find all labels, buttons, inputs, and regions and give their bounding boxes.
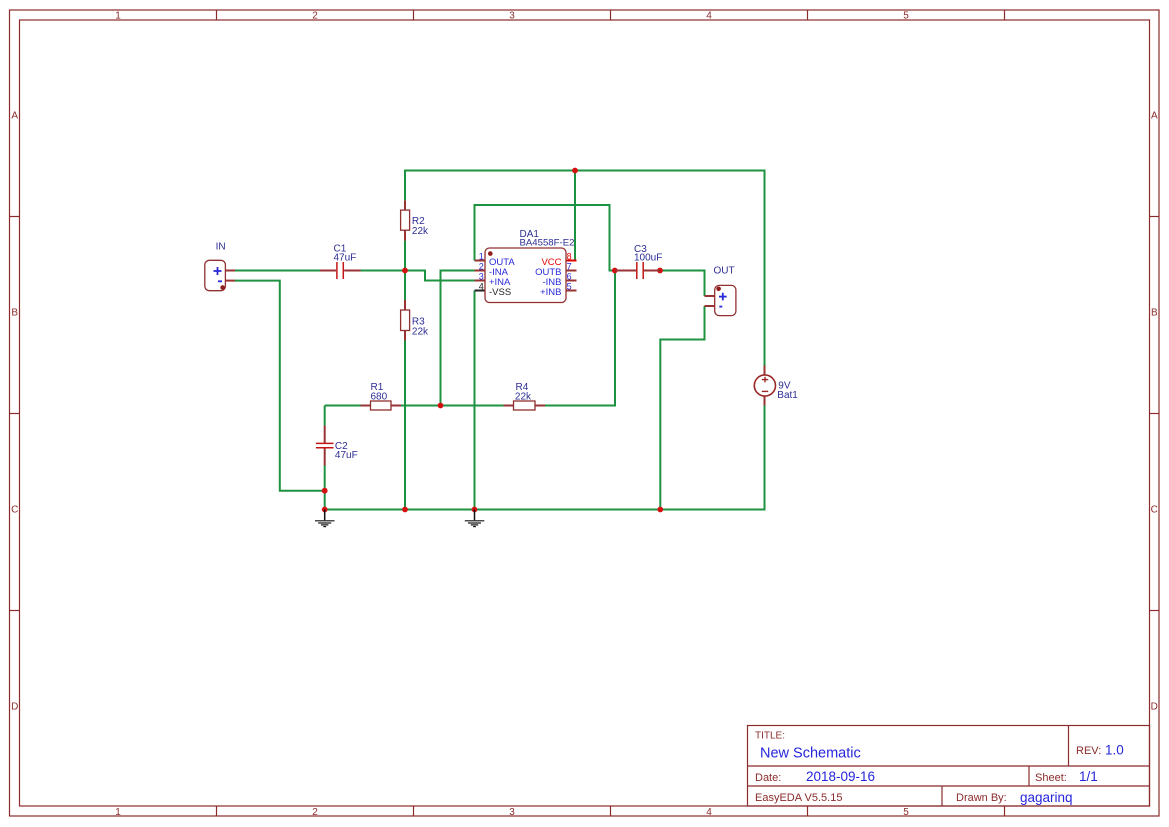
svg-text:100uF: 100uF xyxy=(634,252,662,263)
svg-text:7: 7 xyxy=(567,262,572,272)
svg-text:TITLE:: TITLE: xyxy=(755,731,785,742)
wire R3 bottom to ground rail xyxy=(404,341,406,510)
junction node VCC tap xyxy=(572,168,578,174)
wire R1 left xyxy=(325,405,361,407)
wire pin2 -INA riser xyxy=(441,271,475,406)
svg-text:2: 2 xyxy=(312,807,318,818)
svg-text:8: 8 xyxy=(567,252,572,262)
svg-text:3: 3 xyxy=(479,272,484,282)
wire ground rail and battery bottom riser xyxy=(325,406,765,510)
wire R2 to R3 link xyxy=(404,241,406,300)
svg-text:22k: 22k xyxy=(515,392,532,403)
wire R1 to R4 xyxy=(401,405,504,407)
svg-text:Bat1: Bat1 xyxy=(777,390,798,401)
junction node C1/R2/R3 xyxy=(402,268,408,274)
wire IN+ to C1 xyxy=(235,270,320,272)
junction node OUTA/C3/R4 xyxy=(612,268,618,274)
ground left xyxy=(315,510,335,527)
capacitor C3 100uF xyxy=(615,244,662,279)
svg-text:680: 680 xyxy=(371,392,388,403)
wire C2 top to R1 rail xyxy=(324,406,326,426)
wire -VSS pin4 drop xyxy=(474,291,476,510)
resistor R4 22k xyxy=(504,382,546,410)
svg-text:EasyEDA V5.5.15: EasyEDA V5.5.15 xyxy=(755,792,842,804)
op-amp U1 DA1 BA4558F-E2 xyxy=(475,229,577,303)
resistor R1 680 xyxy=(361,382,402,410)
svg-text:Sheet:: Sheet: xyxy=(1035,772,1067,784)
svg-text:2: 2 xyxy=(479,262,484,272)
svg-text:2: 2 xyxy=(312,11,318,22)
connector IN xyxy=(205,242,235,291)
junction node ground rail VSS xyxy=(472,507,478,513)
junction node ground rail R3 xyxy=(402,507,408,513)
junction node C2 bottom / IN- xyxy=(322,488,328,494)
svg-text:1: 1 xyxy=(479,252,484,262)
svg-text:C: C xyxy=(1151,505,1158,516)
wire junction jog to pin3 +INA xyxy=(405,271,475,281)
svg-text:47uF: 47uF xyxy=(334,252,357,263)
svg-text:Drawn By:: Drawn By: xyxy=(956,792,1007,804)
wire C1 to junction xyxy=(361,270,406,272)
svg-text:A: A xyxy=(1151,111,1158,122)
svg-text:gagarinq: gagarinq xyxy=(1020,790,1073,805)
svg-text:5: 5 xyxy=(903,807,909,818)
svg-text:4: 4 xyxy=(706,807,712,818)
svg-text:Date:: Date: xyxy=(755,772,781,784)
svg-text:3: 3 xyxy=(509,807,515,818)
wire C2 bottom to ground rail xyxy=(324,466,326,510)
svg-text:4: 4 xyxy=(479,282,484,292)
capacitor C1 47uF xyxy=(320,244,361,280)
junction node C3 right xyxy=(657,268,663,274)
svg-text:A: A xyxy=(11,111,18,122)
junction node ground rail left xyxy=(322,507,328,513)
wire R4 right riser to C3 junction xyxy=(545,271,615,406)
svg-text:B: B xyxy=(1151,308,1158,319)
svg-text:1/1: 1/1 xyxy=(1079,769,1098,784)
wire OUT- to ground rail xyxy=(660,306,704,510)
svg-text:New Schematic: New Schematic xyxy=(760,746,861,762)
svg-text:3: 3 xyxy=(509,11,515,22)
svg-text:B: B xyxy=(11,308,18,319)
svg-text:BA4558F-E2: BA4558F-E2 xyxy=(520,238,575,249)
svg-text:C: C xyxy=(11,505,18,516)
svg-text:IN: IN xyxy=(216,242,226,253)
svg-text:6: 6 xyxy=(567,272,572,282)
svg-text:-VSS: -VSS xyxy=(489,287,511,298)
svg-text:+INB: +INB xyxy=(540,287,561,298)
title block xyxy=(748,726,1150,807)
wire IN- down and to C2 bottom xyxy=(235,281,325,491)
svg-text:1: 1 xyxy=(115,807,121,818)
svg-text:1.0: 1.0 xyxy=(1105,743,1124,758)
svg-text:1: 1 xyxy=(115,11,121,22)
wire top power rail xyxy=(405,171,765,366)
ground right xyxy=(465,510,485,527)
wire OUTA loop pin1 xyxy=(475,205,616,271)
svg-text:5: 5 xyxy=(903,11,909,22)
svg-text:5: 5 xyxy=(567,282,572,292)
svg-text:22k: 22k xyxy=(412,226,429,237)
svg-text:OUT: OUT xyxy=(714,266,735,277)
battery Bat1 9V xyxy=(754,366,798,406)
resistor R2 22k xyxy=(401,200,429,240)
wire C3 to OUT+ xyxy=(660,271,705,297)
svg-text:D: D xyxy=(1151,702,1158,713)
connector OUT xyxy=(705,266,736,316)
wire VCC drop to pin8 xyxy=(574,171,576,261)
svg-text:22k: 22k xyxy=(412,327,429,338)
svg-text:D: D xyxy=(11,702,18,713)
svg-text:47uF: 47uF xyxy=(335,450,358,461)
svg-text:4: 4 xyxy=(706,11,712,22)
svg-text:2018-09-16: 2018-09-16 xyxy=(806,769,875,784)
resistor R3 22k xyxy=(401,300,429,341)
svg-text:REV:: REV: xyxy=(1076,745,1101,757)
capacitor C2 47uF xyxy=(316,426,358,466)
junction node R1/R4/pin2 riser xyxy=(438,403,444,409)
junction node ground rail OUT- xyxy=(657,507,663,513)
